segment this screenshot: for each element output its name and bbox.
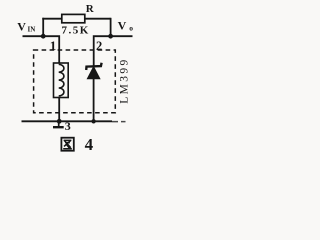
wire top rail right segment xyxy=(85,18,111,20)
resistor R body xyxy=(62,14,85,22)
node rail-heater junction xyxy=(57,119,62,124)
zener diode triangle (anode) xyxy=(87,67,100,79)
wire pin2 connection xyxy=(94,36,111,66)
label Vo xyxy=(118,19,134,33)
wire bottom rail (node 3) xyxy=(22,120,113,122)
node rail-zener junction xyxy=(91,119,95,123)
wire left riser xyxy=(42,18,44,36)
svg-text:IN: IN xyxy=(28,26,36,34)
label Vin xyxy=(17,19,35,33)
wire Vin lead xyxy=(23,35,44,37)
wire zener bottom lead xyxy=(93,79,95,122)
wire bottom rail faded right end xyxy=(112,121,126,123)
svg-text:LM399: LM399 xyxy=(119,57,131,104)
zener diode cathode bar xyxy=(86,63,101,70)
ground xyxy=(53,121,64,127)
node input junction xyxy=(41,34,46,39)
node output junction xyxy=(108,34,113,39)
heater coil xyxy=(59,64,64,96)
heater H (resistor body) xyxy=(54,63,69,98)
svg-text:3: 3 xyxy=(65,119,71,133)
caption 图 4 xyxy=(61,135,93,154)
svg-text:4: 4 xyxy=(85,135,94,154)
wire heater bottom lead xyxy=(58,98,60,122)
svg-text:R: R xyxy=(86,3,95,15)
LM399 package dashed outline xyxy=(34,50,116,113)
svg-text:o: o xyxy=(129,23,133,32)
svg-text:V: V xyxy=(118,19,127,33)
wire pin1 connection xyxy=(43,36,59,63)
wire right riser xyxy=(110,18,112,36)
svg-text:7.5K: 7.5K xyxy=(62,25,90,37)
svg-text:V: V xyxy=(17,19,26,33)
wire top rail left segment xyxy=(42,18,62,20)
wire Vo lead xyxy=(111,35,133,37)
